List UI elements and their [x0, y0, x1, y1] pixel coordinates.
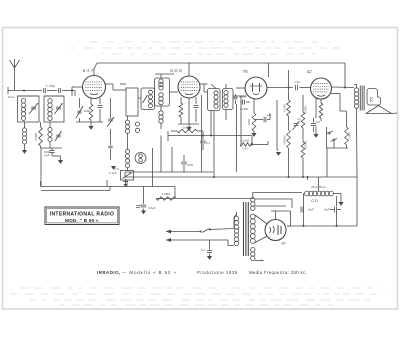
- power transformer sec top: [251, 198, 255, 211]
- wire IFT1 to V2: [170, 91, 179, 93]
- wire choke feed: [308, 177, 319, 191]
- gnd trimmer mid: [108, 129, 117, 175]
- wire AF line: [276, 100, 281, 156]
- wire mains to primary: [210, 217, 234, 230]
- capacitor ant series: [59, 88, 61, 93]
- wire label area drop: [106, 180, 108, 187]
- IFT1 can: [155, 78, 170, 106]
- wire to V4 grid: [300, 87, 311, 89]
- svg-text:Produzione 1935: Produzione 1935: [197, 270, 238, 275]
- wire det drop: [156, 198, 175, 200]
- svg-text:0.2MΩ: 0.2MΩ: [304, 106, 308, 114]
- svg-text:0.05: 0.05: [187, 163, 193, 167]
- osc coil L5: [149, 90, 153, 108]
- wire V1 plate right: [106, 84, 114, 90]
- wire hv top box: [255, 199, 292, 208]
- speaker voice coil: [367, 89, 381, 106]
- wire to band switch: [47, 90, 57, 92]
- svg-text:0.1MΩ: 0.1MΩ: [283, 104, 287, 112]
- coil L1: [21, 99, 25, 121]
- svg-text:0.1: 0.1: [206, 141, 211, 145]
- wire V3 plate: [267, 87, 293, 89]
- wire top bus: [97, 62, 345, 64]
- wire mid drops: [153, 136, 173, 187]
- ground symbol near box: [123, 179, 128, 187]
- resistor R8 chain: [301, 95, 307, 177]
- wire V3 cath gnd: [251, 120, 259, 137]
- coil L3: [22, 122, 26, 150]
- ground C14: [141, 211, 146, 215]
- coil L7 osc sec: [135, 122, 139, 132]
- IFT2 trimmer: [234, 94, 238, 104]
- svg-text:4000: 4000: [84, 109, 91, 113]
- resistor R11: [156, 192, 176, 200]
- speaker cone: [366, 106, 397, 114]
- wire R11 right: [176, 198, 254, 200]
- variable capacitor CV2: [55, 103, 63, 114]
- capacitor C6: [194, 97, 199, 122]
- capacitor C8 005: [181, 155, 193, 172]
- svg-text:1MΩ: 1MΩ: [247, 119, 251, 125]
- svg-text:6 D 6: 6 D 6: [170, 68, 182, 74]
- coil L4: [48, 122, 52, 148]
- IFT2 coil B: [224, 91, 228, 108]
- wire tone box drop: [326, 148, 328, 177]
- wire det out: [253, 141, 268, 145]
- wire rect fil drop: [287, 225, 291, 227]
- svg-text:0.5: 0.5: [316, 120, 320, 124]
- svg-text:75: 75: [242, 69, 248, 75]
- svg-text:0.25MΩ: 0.25MΩ: [304, 140, 308, 149]
- resistor R4 0.5M: [171, 126, 203, 133]
- resistor R1 0.5MO: [34, 122, 42, 146]
- filter choke: [305, 185, 334, 196]
- tone network box: [327, 127, 349, 148]
- wire bottom bus A: [41, 186, 175, 188]
- svg-text:0.2MΩ: 0.2MΩ: [348, 132, 352, 140]
- svg-text:IRRADIO,: IRRADIO,: [97, 270, 121, 275]
- svg-text:0.5MΩ: 0.5MΩ: [34, 133, 38, 141]
- svg-text:MOD. “ B 50 «: MOD. “ B 50 «: [65, 218, 99, 223]
- IFT2 coil A: [214, 91, 218, 109]
- ground V1 cathode: [88, 126, 93, 130]
- wire antenna lead-in: [8, 87, 42, 94]
- wire V1 cath join: [76, 118, 103, 126]
- svg-text:0.1: 0.1: [201, 248, 205, 252]
- power transformer core: [244, 202, 249, 256]
- svg-text:0.1mΩ: 0.1mΩ: [241, 139, 249, 143]
- label C D: [311, 199, 318, 203]
- svg-text:0.2MΩ: 0.2MΩ: [240, 107, 248, 111]
- caption text: [97, 270, 307, 275]
- IFT1 primary: [159, 79, 163, 90]
- osc feedback circle: [135, 153, 146, 164]
- coil L2: [48, 99, 52, 121]
- svg-text:8μF: 8μF: [324, 208, 329, 212]
- wire avc line: [168, 131, 252, 141]
- wire filter gnd bus: [287, 177, 357, 227]
- coil L6 osc pri: [125, 116, 129, 133]
- coil L8 osc tick: [125, 134, 129, 168]
- capacitor C4: [98, 98, 103, 120]
- wire V4 plate: [332, 86, 355, 89]
- wire mains top: [172, 231, 201, 233]
- svg-text:8μF: 8μF: [308, 208, 313, 212]
- coil L1 box: [18, 96, 40, 122]
- ground padder: [58, 160, 63, 164]
- osc pad box: [114, 167, 133, 180]
- capacitor C12: [293, 117, 302, 130]
- wire grid cap V1: [94, 63, 97, 76]
- output transformer primary: [354, 85, 359, 109]
- wire V4 cath: [316, 98, 321, 118]
- resistor R3 screen: [179, 97, 183, 124]
- switch S1: [200, 229, 212, 233]
- resistor R10 tone: [345, 111, 352, 148]
- svg-text:50μμF: 50μμF: [239, 95, 247, 99]
- wire choke left: [304, 194, 306, 227]
- wire det diode drop: [240, 96, 242, 145]
- svg-text:1μF: 1μF: [267, 113, 272, 117]
- wire padder bus: [41, 146, 63, 148]
- capacitor C14: [141, 187, 156, 211]
- wire mains bottom: [172, 240, 235, 246]
- wire left drop: [40, 148, 42, 187]
- svg-text:μμF: μμF: [45, 153, 50, 157]
- svg-text:1.00: 1.00: [294, 80, 300, 84]
- svg-text:0.1μF: 0.1μF: [109, 171, 116, 175]
- wire top bus to V3: [268, 63, 270, 77]
- variable capacitor CV3: [55, 131, 62, 141]
- wire to RF coils: [62, 91, 75, 97]
- svg-text:C D: C D: [311, 199, 318, 203]
- wire IFT2 tops: [211, 84, 226, 89]
- tube V2 6D6: [170, 68, 200, 98]
- antenna: [10, 59, 20, 91]
- ground V2: [186, 124, 191, 131]
- wire V5 right drop: [290, 211, 292, 226]
- power transformer primary: [234, 212, 239, 246]
- capacitor C15 line: [201, 240, 212, 260]
- IFT2 can B: [223, 89, 234, 110]
- label box INTERNATIONAL RADIO: [45, 207, 119, 225]
- osc coil box: [141, 88, 155, 110]
- wire HV to plates: [255, 215, 267, 243]
- wire V1 grid left: [71, 87, 83, 96]
- padder trimmer V1: [107, 98, 114, 127]
- tube V1 6A7: [83, 68, 106, 99]
- svg-text:6 A 7: 6 A 7: [83, 68, 94, 74]
- wire V5 top: [271, 211, 291, 220]
- svg-text:0.3MΩ: 0.3MΩ: [162, 192, 171, 196]
- terminal marks: [136, 206, 141, 208]
- variable capacitor V1 cath: [76, 98, 83, 118]
- svg-text:500: 500: [370, 97, 374, 103]
- wire bottom bus B: [41, 187, 110, 191]
- capacitor C16 8uF: [301, 207, 314, 213]
- wire IFT2 to V3: [233, 88, 246, 96]
- capacitor C10: [259, 113, 272, 122]
- svg-text:80: 80: [281, 242, 286, 246]
- ground arrow filter: [338, 194, 343, 206]
- resistor R6 01M: [240, 139, 253, 151]
- tube V5 80: [265, 220, 286, 246]
- output transformer core: [360, 86, 364, 111]
- capacitor C9 50: [239, 95, 250, 112]
- capacitor C13: [311, 118, 320, 132]
- wire sec top up: [253, 193, 302, 198]
- wire speaker field: [356, 108, 359, 177]
- wire HT bus: [195, 176, 357, 178]
- tube V4 42: [306, 69, 331, 99]
- IFT2 can A: [208, 89, 221, 111]
- svg-text:0.5mΩ: 0.5mΩ: [183, 126, 192, 130]
- wire box tops: [18, 95, 65, 97]
- variable capacitor osc: [143, 95, 148, 103]
- svg-text:0.1: 0.1: [297, 117, 301, 121]
- ground V4: [313, 127, 318, 138]
- svg-text:— Modello « B 50 »: — Modello « B 50 »: [122, 270, 177, 275]
- svg-text:42: 42: [306, 69, 312, 75]
- wire V2 plate to IFT2: [200, 84, 208, 92]
- wire bus A drop: [174, 187, 176, 199]
- capacitor padder 2000: [44, 148, 55, 157]
- capacitor C7 01: [200, 131, 210, 150]
- wire V2 screen drop: [201, 95, 203, 172]
- capacitor C11 coupling: [294, 80, 300, 90]
- ground below L3: [22, 150, 27, 154]
- resistor R2 4000: [84, 98, 93, 120]
- variable capacitor CV1: [29, 103, 38, 114]
- resistor R9 cath: [319, 103, 323, 121]
- tube V3 75: [242, 69, 267, 99]
- wire avc tail: [251, 136, 253, 146]
- svg-text:INTERNATIONAL RADIO: INTERNATIONAL RADIO: [50, 212, 115, 218]
- svg-text:C. imp: C. imp: [45, 84, 54, 88]
- power transformer sec HV: [250, 214, 255, 243]
- svg-text:+5mA 25mA: +5mA 25mA: [310, 185, 325, 189]
- svg-text:Terra: Terra: [8, 95, 15, 99]
- label Terra: [8, 95, 15, 99]
- wire osc bottom: [126, 168, 129, 187]
- wire choke right: [333, 193, 341, 195]
- wire trimmer drop: [236, 104, 238, 172]
- resistor R5 1M: [247, 99, 256, 131]
- wire IFT2 drops: [210, 110, 226, 178]
- shield box osc: [126, 88, 138, 116]
- wire top bus drop: [344, 63, 346, 89]
- wire IFT1 top: [155, 74, 174, 78]
- svg-text:0.5μF: 0.5μF: [148, 206, 156, 210]
- wire V4 screen: [330, 94, 346, 112]
- wire grid cap V2: [188, 63, 190, 76]
- IFT1 lower coil: [159, 106, 163, 129]
- power transformer sec fil: [251, 248, 264, 262]
- wire bus pair left: [125, 172, 213, 177]
- svg-text:Media Frequenza: 250 kc.: Media Frequenza: 250 kc.: [249, 270, 307, 275]
- wire tick above box: [40, 181, 42, 187]
- resistor R7 chain: [283, 70, 291, 177]
- svg-text:0.02: 0.02: [242, 147, 248, 151]
- svg-text:50000Ω: 50000Ω: [283, 135, 287, 144]
- IFT1 secondary: [159, 93, 163, 105]
- wire V2 cath bus: [178, 98, 199, 124]
- wire osc links: [113, 84, 141, 98]
- capacitor C.imp: [44, 84, 55, 93]
- mains plug: [166, 230, 172, 243]
- capacitor C17 8uF: [324, 196, 341, 226]
- svg-text:C.P.: C.P.: [114, 167, 119, 171]
- coil L2 box: [44, 96, 64, 122]
- wire padder to gnd: [52, 153, 61, 160]
